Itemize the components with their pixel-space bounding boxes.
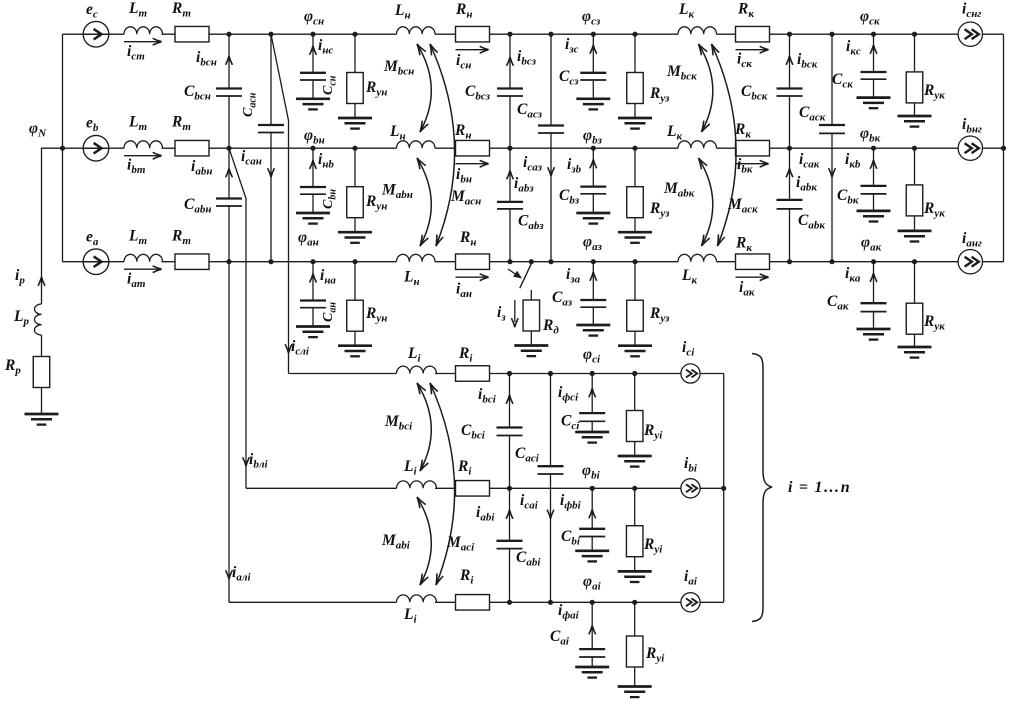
label C_acн (rotated): [241, 92, 259, 117]
wire rail c segment 2: [162, 33, 397, 35]
wire tap of phase a to line i: [228, 262, 230, 603]
arrow current i_cн: [456, 49, 487, 51]
arrow i_bcн (up): [226, 56, 233, 65]
wire C_bcн branch: [228, 34, 230, 148]
capacitor C_bcк: [776, 89, 804, 95]
resistor R_yi shunt to ground (row ci): [634, 374, 636, 457]
capacitor C_bк shunt with ground: [873, 148, 875, 211]
capacitor C_ак shunt with ground: [873, 262, 875, 329]
node rail a / C_abк: [787, 259, 792, 264]
label C_ан (rotated): [321, 302, 339, 322]
node rail c / R_ук: [912, 32, 917, 37]
node rail c / C_acн: [268, 32, 273, 37]
inductor L_m (phase a): [124, 254, 162, 261]
inductor L_н (rail н): [397, 141, 436, 148]
inductor L_m (phase b): [124, 141, 162, 148]
wire rail a segment 1: [63, 261, 125, 263]
wire R_p to ground: [41, 388, 43, 415]
node rail c / C_acк: [829, 32, 834, 37]
resistor R_ун shunt to ground (rail c): [354, 34, 356, 118]
node rail c / C_bcн: [226, 32, 231, 37]
wire C_acк branch: [831, 34, 833, 262]
current source i_ci: [681, 364, 700, 383]
node rail b / R_уз: [632, 146, 637, 151]
wire tap of phase b to line i (with jog): [229, 148, 246, 488]
wire R_д to ground: [530, 331, 532, 346]
mutual inductance arc M_acк: [712, 44, 737, 246]
node row ci / C_bci: [507, 371, 512, 376]
wire C_acн branch: [270, 34, 272, 262]
inductor L_к (rail ак): [678, 254, 716, 261]
resistor R_yi shunt to ground (row bi): [634, 488, 636, 571]
node rail a / C_ан: [310, 259, 315, 264]
node rail c / C_bcк: [787, 32, 792, 37]
node rail c / R_уз: [632, 32, 637, 37]
arrow i_bcз (up): [507, 57, 514, 66]
arrow i_bci (up): [506, 395, 513, 404]
node rail b / C_bcз: [507, 146, 512, 151]
resistor R_н (rail н): [456, 254, 490, 270]
wire rail c segment 1: [63, 33, 125, 35]
capacitor C_ci shunt with ground: [591, 374, 593, 433]
arrow i_bcк (up): [786, 56, 793, 65]
wire C_abi branch: [509, 488, 511, 602]
node rail a / C_aз: [591, 259, 596, 264]
arrow of switch closing: [508, 269, 516, 275]
wire row bi segment 1: [246, 487, 397, 489]
arrow i_abк (up): [786, 169, 793, 178]
resistor R_н (rail н): [456, 140, 490, 156]
wire L_p to R_p: [41, 335, 43, 357]
node phi_N: [60, 146, 65, 151]
arrow i_cлi (down): [285, 344, 292, 353]
node row ai / C_abi: [507, 600, 512, 605]
node row ai / C_aci: [548, 600, 553, 605]
node rail b / C_bк: [871, 146, 876, 151]
wire rail a segment 2: [162, 261, 397, 263]
wire rail c segment 3: [435, 33, 678, 35]
resistor R_i (row bi): [456, 481, 490, 497]
right bus of i-th section: [723, 374, 725, 603]
node rail c / R_ун: [352, 32, 357, 37]
capacitor C_abз: [496, 203, 524, 208]
node right bus / rail b junction: [1001, 146, 1006, 151]
arrow i_cai (down): [547, 510, 554, 519]
capacitor C_ан shunt with ground: [312, 262, 314, 327]
resistor R_уз shunt to ground (rail b): [634, 148, 636, 232]
label C_cн (rotated): [321, 75, 339, 95]
node row bi / C_bi: [590, 486, 595, 491]
inductor L_к (rail ск): [678, 27, 716, 34]
mutual inductance arc M_abк: [699, 158, 713, 246]
wire C_aci branch: [550, 374, 552, 603]
node rail c / C_cн: [310, 32, 315, 37]
node rail c / C_ск: [871, 32, 876, 37]
capacitor C_bcн: [215, 89, 243, 95]
node rail a / R_уз: [632, 259, 637, 264]
wire C_bcз branch: [509, 34, 511, 148]
earth-fault switch on rail a: [520, 264, 532, 289]
wire C_abн branch: [228, 148, 230, 262]
arrow i_caн (down): [268, 168, 275, 177]
arrow i_bлi (down): [243, 457, 250, 466]
resistor R_н (rail н): [456, 26, 490, 42]
node row ai / R_yi: [632, 600, 637, 605]
current source i_анг: [958, 250, 982, 274]
node rail b / R_ун: [352, 146, 357, 151]
mutual inductance arc M_abн: [417, 158, 431, 246]
node rail a / C_abн: [226, 259, 231, 264]
inductor L_i (row bi): [397, 481, 437, 488]
wire row ci segment 2: [435, 373, 724, 375]
inductor L_н (rail н): [397, 254, 436, 261]
wire C_abз branch: [509, 148, 511, 262]
capacitor C_bз shunt with ground: [592, 148, 594, 213]
node rail a / switch: [529, 259, 534, 264]
capacitor C_cз shunt with ground: [592, 34, 594, 99]
voltage source e_a: [83, 249, 109, 275]
inductor L_к (rail bк): [678, 141, 716, 148]
resistor R_m (phase b): [175, 140, 209, 156]
wire rail b segment 1: [63, 147, 125, 149]
voltage source e_c: [83, 21, 109, 47]
inductor L_i (row ai): [397, 595, 437, 602]
wire row bi segment 2: [435, 487, 724, 489]
ground of R_p: [25, 413, 59, 416]
arrow i_abз (up): [507, 171, 514, 180]
arrow current i_ак: [736, 276, 767, 278]
capacitor C_aci: [537, 467, 565, 473]
node rail b / R_ук: [912, 146, 917, 151]
mutual inductance arc M_bci: [417, 383, 431, 471]
node row ci / C_aci: [548, 371, 553, 376]
resistor R_ун shunt to ground (rail b): [354, 148, 356, 232]
wire C_acз branch: [550, 34, 552, 262]
node rail b / C_bн: [310, 146, 315, 151]
capacitor C_bcз: [496, 89, 524, 95]
wire row ai segment 2: [435, 601, 724, 603]
node rail c / C_bcз: [507, 32, 512, 37]
resistor R_уз shunt to ground (rail c): [634, 34, 636, 118]
brace i = 1..n: [752, 354, 772, 622]
arrow i_caз (down): [548, 167, 555, 176]
capacitor C_cн shunt with ground: [312, 34, 314, 99]
arrow current i_cm: [124, 41, 160, 43]
capacitor C_bi shunt with ground: [591, 488, 593, 551]
wire C_bcк branch: [789, 34, 791, 148]
arrow i_caк (down): [829, 168, 836, 177]
wire rail b segment 2: [162, 147, 397, 149]
wire rail a segment 4: [717, 261, 1004, 263]
current source i_bнг: [958, 136, 982, 160]
resistor R_д: [523, 300, 540, 331]
resistor R_уз shunt to ground (rail a): [634, 262, 636, 346]
wire rail c segment 4: [717, 33, 1004, 35]
capacitor C_abк: [776, 201, 804, 208]
wire C_bci branch: [509, 374, 511, 489]
resistor R_i (row ci): [456, 366, 490, 382]
resistor R_i (row ai): [456, 595, 490, 611]
resistor R_к (rail bк): [736, 140, 770, 156]
node rail a / C_acз: [548, 259, 553, 264]
capacitor C_abi: [496, 542, 524, 548]
node rail b / C_bз: [591, 146, 596, 151]
arrow current i_bm: [124, 155, 160, 157]
current source i_снг: [958, 22, 982, 46]
voltage source e_b: [83, 135, 109, 161]
node rail a / C_acк: [829, 259, 834, 264]
label C_bн (rotated): [321, 189, 339, 209]
current source i_ai: [681, 593, 700, 612]
capacitor C_acк: [818, 126, 846, 133]
resistor R_ук shunt to ground (rail c): [914, 34, 916, 116]
capacitor C_abн: [215, 199, 243, 205]
wire row ci segment 1: [289, 373, 397, 375]
wire tap of phase c to line i (with jog): [271, 34, 289, 373]
wire row ai segment 1: [229, 601, 397, 603]
capacitor C_bci: [496, 428, 524, 434]
svg-text:i = 1…n: i = 1…n: [788, 479, 851, 496]
wire rail b segment 3: [435, 147, 678, 149]
branch i_p wire from node phi_N: [42, 148, 63, 304]
mutual inductance arc M_abi: [417, 497, 431, 585]
resistor R_к (rail ак): [736, 254, 770, 270]
inductor L_p: [34, 304, 41, 335]
resistor R_yi shunt to ground (row ai): [634, 602, 636, 686]
node rail a / R_ук: [912, 259, 917, 264]
node row ci / R_yi: [632, 371, 637, 376]
arrow i_з (down): [514, 300, 516, 322]
capacitor C_ск shunt with ground: [873, 34, 875, 97]
ground of R_д: [514, 344, 548, 347]
node bus / row bi: [721, 486, 726, 491]
capacitor C_acн: [257, 126, 285, 132]
node rail b / C_bcн: [226, 146, 231, 151]
mutual inductance arc M_bcн: [417, 44, 431, 132]
wire rail b segment 4: [717, 147, 1004, 149]
capacitor C_bн shunt with ground: [312, 148, 314, 213]
current source i_bi: [681, 479, 700, 498]
capacitor C_ai shunt with ground: [591, 602, 593, 667]
node rail c / C_cз: [591, 32, 596, 37]
node rail a / C_acн: [268, 259, 273, 264]
wire C_abк branch: [789, 148, 791, 262]
arrow current i_ск: [736, 49, 767, 51]
node row ai / C_ai: [590, 600, 595, 605]
mutual inductance arc M_acн: [430, 44, 455, 246]
resistor R_ук shunt to ground (rail b): [914, 148, 916, 231]
left neutral rail wire (phi_N bus): [62, 34, 64, 262]
capacitor C_aз shunt with ground: [592, 262, 594, 325]
arrow current i_am: [124, 268, 160, 270]
resistor R_ук shunt to ground (rail a): [914, 262, 916, 347]
mutual inductance arc M_aci: [430, 383, 455, 585]
arrow current i_bк: [736, 163, 767, 165]
resistor R_к (rail ск): [736, 26, 770, 42]
node row ci / C_ci: [590, 371, 595, 376]
inductor L_m (phase c): [124, 27, 162, 34]
right generator bus wire: [1003, 34, 1005, 262]
wire rail a segment 3: [435, 261, 678, 263]
node rail b / C_bcк: [787, 146, 792, 151]
arrow i_aлi (down): [226, 570, 233, 579]
node row bi / R_yi: [632, 486, 637, 491]
inductor L_н (rail н): [397, 27, 436, 34]
arrow current i_ан: [456, 276, 487, 278]
arrow current i_bн: [456, 163, 487, 165]
arrow i_p (up): [38, 277, 45, 286]
resistor R_p: [33, 357, 50, 388]
node rail a / C_abз: [507, 259, 512, 264]
arrow i_abi (up): [506, 510, 513, 519]
node rail a / C_ак: [871, 259, 876, 264]
node row bi / C_bci: [507, 486, 512, 491]
arrow i_abн (up): [226, 169, 233, 178]
resistor R_ун shunt to ground (rail a): [354, 262, 356, 346]
node rail a / R_ун: [352, 259, 357, 264]
resistor R_m (phase a): [175, 254, 209, 270]
mutual inductance arc M_bcк: [699, 44, 713, 132]
node rail c / C_acз: [548, 32, 553, 37]
capacitor C_acз: [537, 126, 565, 132]
inductor L_i (row ci): [397, 366, 437, 373]
resistor R_m (phase c): [175, 26, 209, 42]
